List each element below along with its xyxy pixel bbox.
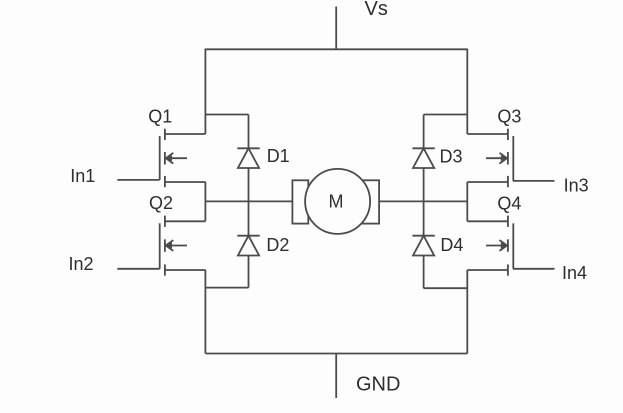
wire Q3 drain bbox=[467, 133, 508, 135]
svg-text:In1: In1 bbox=[70, 166, 95, 186]
wire Q1 drain bbox=[165, 133, 206, 135]
transistor Q1 bbox=[160, 129, 187, 188]
svg-text:D1: D1 bbox=[267, 146, 290, 166]
wire Q2 drain bbox=[165, 220, 206, 222]
wire left lower vertical bbox=[204, 270, 206, 354]
wire GND lead bbox=[335, 354, 337, 399]
wire left upper vertical bbox=[204, 49, 206, 134]
wire D1-D2 vertical bbox=[248, 115, 250, 288]
diode D3 bbox=[412, 148, 434, 168]
wire Q4 drain bbox=[467, 220, 508, 222]
svg-text:Q4: Q4 bbox=[497, 194, 521, 214]
node A left motor vertical bbox=[204, 182, 206, 221]
svg-text:GND: GND bbox=[356, 374, 400, 396]
wire D3-D4 vertical bbox=[423, 115, 425, 289]
svg-text:Vs: Vs bbox=[365, 0, 388, 20]
wire right lower vertical bbox=[466, 270, 468, 354]
svg-text:D2: D2 bbox=[266, 235, 289, 255]
wire Q4 source bbox=[467, 269, 508, 271]
svg-text:Q3: Q3 bbox=[497, 107, 521, 127]
wire D3 branch bbox=[424, 114, 468, 116]
diode D4 bbox=[412, 236, 434, 256]
transistor Q3 bbox=[486, 129, 513, 188]
node B right motor vertical bbox=[466, 182, 468, 221]
wire Q1 source bbox=[165, 181, 206, 183]
wire top rail Vs net bbox=[205, 48, 467, 50]
svg-text:In4: In4 bbox=[562, 263, 587, 283]
wire Q3 source bbox=[467, 181, 508, 183]
svg-text:Q2: Q2 bbox=[149, 193, 173, 213]
svg-text:M: M bbox=[329, 192, 344, 212]
diode D1 bbox=[237, 148, 259, 168]
motor M1 bbox=[292, 169, 379, 234]
wire D2 connector bbox=[205, 287, 248, 289]
svg-text:Q1: Q1 bbox=[148, 107, 172, 127]
wire motor left bbox=[205, 200, 292, 202]
svg-text:In2: In2 bbox=[69, 254, 94, 274]
wire D4 connector bbox=[424, 287, 468, 289]
transistor Q2 bbox=[160, 216, 187, 276]
wire In4 bbox=[513, 268, 555, 270]
wire In2 bbox=[117, 268, 159, 270]
svg-text:In3: In3 bbox=[564, 176, 589, 196]
wire In3 bbox=[513, 180, 555, 182]
wire right upper vertical bbox=[466, 49, 468, 134]
diode D2 bbox=[237, 236, 259, 256]
wire Vs lead bbox=[335, 7, 337, 50]
svg-text:D4: D4 bbox=[440, 235, 463, 255]
wire D1 branch bbox=[205, 114, 248, 116]
svg-text:D3: D3 bbox=[440, 147, 463, 167]
wire In1 bbox=[117, 179, 159, 181]
wire motor right bbox=[379, 200, 467, 202]
transistor Q4 bbox=[486, 216, 513, 276]
wire Q2 source bbox=[165, 269, 206, 271]
wire bottom rail GND net bbox=[205, 353, 467, 355]
